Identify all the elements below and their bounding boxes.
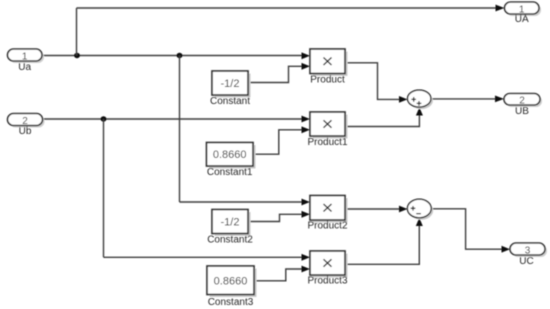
svg-text:UC: UC (519, 256, 533, 267)
sum block Sum1 (+ +) (408, 90, 433, 109)
wire Product output to Sum1 left input (345, 63, 408, 103)
junction on Ua line feeding UA outport (74, 53, 80, 58)
outport 1 UA (505, 2, 542, 25)
product block Product2 (307, 196, 347, 232)
wire top rail to outport UA (77, 5, 505, 12)
constant block Constant3 value 0.8660 (207, 266, 257, 308)
svg-text:Constant2: Constant2 (207, 235, 253, 246)
wire Constant3 to Product3 input 2 (254, 266, 310, 281)
wire Ua main horizontal to Product input 1 (42, 52, 310, 59)
constant block Constant1 value 0.8660 (207, 143, 256, 179)
svg-text:0.8660: 0.8660 (214, 276, 248, 288)
svg-text:Ua: Ua (18, 62, 31, 73)
wire vertical from Ub junction down then right to Product3 input 1 (104, 119, 311, 261)
svg-text:UB: UB (515, 106, 529, 117)
outport 2 UB (504, 94, 542, 118)
svg-text:Constant3: Constant3 (208, 297, 254, 308)
wire Constant1 to Product1 input 2 (253, 126, 310, 154)
svg-text:UA: UA (515, 14, 529, 25)
wire vertical from Ua junction up to top rail (76, 8, 78, 56)
wire vertical from Ua junction down then right to Product2 input 1 (180, 56, 311, 206)
svg-text:-1/2: -1/2 (221, 78, 240, 90)
svg-text:Product3: Product3 (307, 276, 347, 287)
wire Sum1 output to outport UB (431, 96, 504, 103)
product block Product3 (307, 251, 347, 287)
wire Constant2 to Product2 input 2 (248, 211, 310, 222)
constant block Constant value -1/2 (210, 71, 251, 107)
svg-text:3: 3 (525, 245, 531, 256)
svg-text:Ub: Ub (19, 126, 32, 137)
wire Product3 output to Sum2 bottom input (345, 218, 423, 264)
inport 1 Ua (8, 49, 45, 73)
outport 3 UC (510, 243, 547, 267)
svg-text:Constant: Constant (210, 96, 250, 107)
svg-text:Product: Product (310, 75, 345, 86)
svg-text:0.8660: 0.8660 (213, 149, 247, 161)
junction on Ub line feeding Product3 branch (101, 116, 107, 121)
svg-text:Constant1: Constant1 (207, 167, 253, 178)
constant block Constant2 value -1/2 (207, 210, 253, 246)
svg-text:1: 1 (22, 51, 28, 62)
wire Product1 output to Sum1 bottom input (345, 107, 423, 126)
inport 2 Ub (8, 114, 45, 138)
sum block Sum2 (+ -) (407, 199, 433, 220)
wire Product2 output to Sum2 left input (345, 206, 408, 213)
wire Sum2 output to outport UC (431, 209, 510, 253)
svg-text:-1/2: -1/2 (221, 217, 240, 229)
wire Ub main horizontal to Product1 input 1 (43, 116, 310, 123)
product block Product1 (307, 112, 347, 148)
svg-text:Product2: Product2 (307, 221, 347, 232)
svg-text:2: 2 (519, 96, 525, 107)
svg-text:Product1: Product1 (307, 137, 347, 148)
product block Product (310, 49, 348, 86)
wire Constant to Product input 2 (248, 63, 310, 83)
junction on Ua line feeding Product2 branch (177, 53, 183, 58)
